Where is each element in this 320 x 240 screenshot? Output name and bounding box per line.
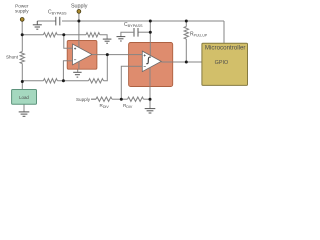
- resistor R_DIV 1: [96, 97, 112, 101]
- svg-text:Microcontroller: Microcontroller: [205, 45, 246, 52]
- wire node to op-amp - input: [63, 61, 67, 81]
- node op-amp + input: [62, 33, 65, 36]
- wire op-amp ground pin: [77, 65, 79, 72]
- svg-text:supply: supply: [15, 8, 29, 13]
- wire R_PULLUP top lead: [185, 21, 187, 27]
- wire plus-input rail: [22, 34, 43, 36]
- node R_PULLUP top: [185, 20, 188, 23]
- resistor R4 (to ground): [86, 33, 100, 37]
- op-amp U1 body: [67, 40, 97, 69]
- node B comparator supply tap: [149, 20, 152, 23]
- node divider mid: [120, 98, 123, 101]
- svg-text:RDIV: RDIV: [100, 103, 110, 109]
- resistor R_DIV 2: [128, 97, 144, 101]
- capacitor C_BYPASS 1 plates: [56, 17, 60, 26]
- node C_BYPASS2 tap: [149, 31, 152, 34]
- resistor R3 (to op-amp + input): [43, 33, 57, 37]
- node A supply top: [77, 20, 80, 23]
- comparator U2 body: [129, 43, 173, 87]
- svg-text:Load: Load: [19, 95, 29, 100]
- ground (op-amp): [73, 72, 81, 77]
- svg-text:CBYPASS: CBYPASS: [48, 10, 67, 16]
- svg-text:RDIV: RDIV: [123, 103, 133, 109]
- power supply terminal wire down: [21, 21, 23, 35]
- wire R1 to node: [57, 80, 88, 82]
- svg-text:RPULLUP: RPULLUP: [190, 31, 208, 37]
- wire top supply rail: [62, 20, 224, 22]
- wire node to op-amp + input: [64, 35, 67, 48]
- supply terminal: [77, 10, 81, 14]
- wire comparator ground pin: [149, 72, 151, 109]
- ground (comparator / divider): [145, 109, 156, 113]
- wire shunt bottom to load node: [21, 64, 23, 90]
- wire feedback corner up to output node: [104, 55, 108, 81]
- ground (load): [19, 112, 30, 116]
- node shunt top: [21, 33, 24, 36]
- ground (C_BYPASS 1): [33, 21, 42, 29]
- capacitor C_BYPASS 2 plates: [134, 28, 138, 37]
- load block: [12, 90, 37, 105]
- node op-amp - input: [62, 79, 65, 82]
- node divider bottom: [149, 98, 152, 101]
- svg-text:CBYPASS: CBYPASS: [124, 22, 143, 28]
- ground (R4): [103, 39, 112, 43]
- wire load box lead: [23, 104, 25, 112]
- capacitor C_BYPASS 2 wire from supply pin: [138, 31, 150, 33]
- microcontroller block: [202, 43, 248, 85]
- wire R_DIV1 to node: [112, 98, 128, 100]
- svg-text:Shunt: Shunt: [6, 55, 19, 60]
- wire comparator output to GPIO: [173, 61, 202, 63]
- resistor R1 (to op-amp - input): [43, 79, 57, 83]
- wire R4 to ground corner: [100, 35, 107, 39]
- wire C_BYPASS 2 to ground: [121, 32, 134, 36]
- supply terminal wire down: [78, 13, 80, 21]
- wire R_PULLUP bottom lead: [185, 39, 187, 62]
- svg-text:GPIO: GPIO: [215, 60, 228, 66]
- wire op-amp supply pin: [78, 21, 80, 47]
- power supply terminal: [20, 18, 24, 22]
- wire rail corner down to microcontroller supply pin: [223, 21, 225, 43]
- svg-text:Supply: Supply: [71, 3, 88, 9]
- node shunt bottom / load: [21, 80, 24, 83]
- resistor R2 feedback: [89, 79, 104, 83]
- resistor R_PULLUP: [184, 27, 188, 40]
- wire op-amp output to comparator: [97, 54, 142, 56]
- resistor Shunt: [20, 52, 24, 64]
- wire from R3 to node: [57, 34, 86, 36]
- wire R_DIV2 to comparator ground line: [144, 98, 151, 100]
- svg-text:Supply: Supply: [76, 97, 91, 102]
- wire divider supply lead: [91, 98, 96, 100]
- wire minus-input rail: [22, 80, 43, 82]
- wire comparator supply pin: [149, 21, 151, 55]
- ground (C_BYPASS 2): [117, 37, 126, 41]
- node comparator output / pullup: [185, 61, 188, 64]
- wire comparator minus input from divider: [121, 66, 128, 99]
- wire shunt top: [21, 35, 23, 52]
- node op-amp output: [106, 53, 109, 56]
- capacitor C_BYPASS 1 wire to ground: [37, 20, 56, 22]
